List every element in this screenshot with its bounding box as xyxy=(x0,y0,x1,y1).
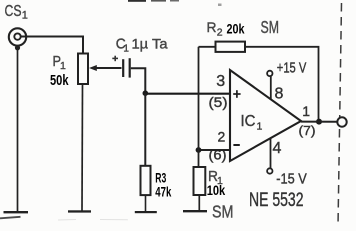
wire pin 4 xyxy=(270,139,272,169)
svg-text:R: R xyxy=(207,19,217,35)
cropped text remnant top xyxy=(128,0,222,6)
svg-text:3: 3 xyxy=(216,73,225,90)
wire feedback top horizontal xyxy=(199,47,319,122)
minus input symbol xyxy=(233,144,239,146)
label R2 xyxy=(207,19,223,39)
power terminal -15V xyxy=(267,168,272,173)
svg-text:4: 4 xyxy=(273,140,282,157)
wire feedback left vertical xyxy=(198,47,200,150)
wire R1 to SM rail xyxy=(198,195,200,211)
wire node A to op-amp plus input xyxy=(145,93,230,95)
node A junction xyxy=(143,90,149,96)
svg-text:1: 1 xyxy=(123,44,129,55)
wire op-amp output xyxy=(301,121,337,123)
svg-text:SM: SM xyxy=(261,17,280,37)
resistor R3 xyxy=(141,166,151,195)
ground xyxy=(135,211,157,213)
svg-text:10k: 10k xyxy=(207,182,226,198)
svg-text:2: 2 xyxy=(218,129,226,145)
wire R3 to ground xyxy=(145,195,147,211)
connector CS1 xyxy=(9,28,26,45)
svg-text:50k: 50k xyxy=(50,72,69,89)
wire node A down to R3 xyxy=(144,93,146,166)
output terminal xyxy=(337,117,346,126)
svg-text:IC: IC xyxy=(241,113,256,130)
svg-text:1: 1 xyxy=(60,60,66,72)
SM rail bar xyxy=(183,210,207,212)
resistor R1 xyxy=(194,167,206,195)
capacitor C1 xyxy=(123,58,130,77)
svg-text:2: 2 xyxy=(217,27,223,39)
label IC1 xyxy=(241,113,263,132)
power terminal +15V xyxy=(267,71,272,76)
node B junction xyxy=(196,147,202,153)
op-amp IC1 xyxy=(230,70,301,161)
svg-text:1: 1 xyxy=(22,10,28,22)
junction dot at connector ground xyxy=(15,45,20,50)
svg-text:1: 1 xyxy=(257,120,263,132)
label P1 xyxy=(53,53,67,72)
svg-text:20k: 20k xyxy=(227,21,245,37)
ground xyxy=(68,210,91,212)
wire connector to ground xyxy=(17,48,19,212)
svg-text:8: 8 xyxy=(275,86,284,103)
svg-text:CS: CS xyxy=(5,3,22,20)
node output junction xyxy=(316,119,322,125)
resistor R2 xyxy=(216,42,246,52)
wire P1 bottom to ground xyxy=(81,84,84,211)
svg-text:1µ Ta: 1µ Ta xyxy=(132,35,168,51)
svg-text:(7): (7) xyxy=(299,123,316,138)
svg-text:SM: SM xyxy=(212,202,234,222)
wire node B to R1 xyxy=(198,150,200,167)
wire connector to P1 top xyxy=(21,37,84,55)
wire C1 to node A xyxy=(131,68,146,93)
label R1 xyxy=(208,168,223,187)
wire pin 8 xyxy=(270,76,272,100)
scan artifact bottom left xyxy=(0,217,21,219)
svg-text:-15 V: -15 V xyxy=(276,171,307,187)
svg-text:NE 5532: NE 5532 xyxy=(249,189,304,211)
label CS1 xyxy=(5,3,28,22)
ground xyxy=(4,211,29,213)
label C1 1u Ta xyxy=(116,35,168,54)
svg-text:1: 1 xyxy=(302,103,310,119)
scan artifact faint specks xyxy=(58,219,128,222)
plus input symbol xyxy=(233,90,240,98)
wire minus input to node B xyxy=(199,149,231,151)
svg-text:+15 V: +15 V xyxy=(277,60,307,76)
polarity plus of C1 xyxy=(112,56,118,62)
dashed boundary line xyxy=(338,3,342,226)
potentiometer P1 xyxy=(78,54,88,85)
svg-text:47k: 47k xyxy=(155,183,171,199)
svg-text:(5): (5) xyxy=(209,95,228,110)
wiper arrow of P1 xyxy=(89,65,122,71)
